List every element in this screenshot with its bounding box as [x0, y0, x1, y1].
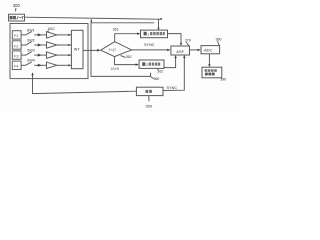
svg-text:SW3: SW3	[27, 48, 35, 52]
svg-text:360: 360	[154, 77, 160, 81]
svg-text:350: 350	[145, 104, 152, 109]
svg-text:SW2: SW2	[27, 38, 35, 42]
svg-text:INT: INT	[74, 48, 81, 52]
svg-text:Y=(?: Y=(?	[109, 48, 116, 52]
svg-text:361: 361	[113, 28, 119, 32]
svg-text:ADC: ADC	[204, 47, 213, 52]
svg-text:1: 1	[147, 33, 149, 37]
svg-text:F1: F1	[14, 34, 18, 38]
svg-text:F4: F4	[14, 65, 18, 69]
svg-text:ASF: ASF	[176, 49, 184, 54]
svg-text:SW1: SW1	[27, 29, 35, 33]
svg-text:362: 362	[126, 55, 132, 59]
svg-text:370: 370	[185, 38, 191, 42]
svg-text:SW4: SW4	[27, 58, 35, 62]
svg-text:SYNC: SYNC	[144, 43, 155, 47]
svg-text:300: 300	[13, 3, 21, 8]
svg-text:F3: F3	[14, 54, 18, 58]
svg-text:362: 362	[157, 70, 163, 74]
svg-text:390: 390	[220, 78, 226, 82]
svg-text:2: 2	[146, 63, 148, 67]
svg-text:SYNC: SYNC	[167, 86, 178, 90]
svg-text:F2: F2	[14, 44, 18, 48]
svg-text:380: 380	[216, 38, 222, 42]
svg-text:1/N·B: 1/N·B	[111, 67, 119, 71]
svg-text:ASC: ASC	[48, 27, 56, 31]
